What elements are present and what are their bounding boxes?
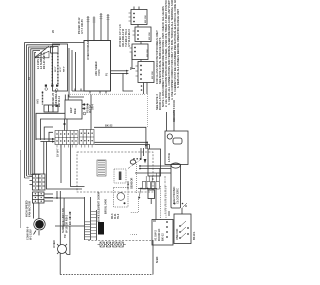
wire P2 drop [90,95,92,130]
svg-text:BAKE ELEMENT 2600W: BAKE ELEMENT 2600W [97,191,101,222]
cavity feed wires [141,148,144,160]
svg-text:UNLOCK: UNLOCK [175,228,179,240]
latch motor circle [167,134,172,139]
svg-text:ELECTRONIC: ELECTRONIC [172,186,176,204]
heater ladder resistor bank [85,197,97,240]
svg-text:BR W-14: BR W-14 [57,95,61,107]
ground loop ellipse [130,160,136,164]
blower block dots [141,85,143,91]
latch switch small box [173,138,182,144]
clock bottom contact cluster [174,203,187,207]
grid feed stubs [146,169,159,182]
relay contact strip R5 [44,105,58,112]
lockout relay box K1 (HLP) [65,100,82,119]
relay contact grid row [142,182,159,190]
broil element hatched [97,160,106,176]
oven sensor inner dashed box [114,169,126,183]
wires cavity to clock [135,166,171,173]
svg-text:SENSOR: SENSOR [130,178,134,189]
P1 cell dots [56,133,76,141]
sensor element bar [119,172,122,181]
svg-text:W-10 OR RD-2: W-10 OR RD-2 [65,214,69,233]
corner junction dots [145,142,148,147]
svg-text:BK: BK [131,66,133,70]
oven lamp L1 [57,244,67,254]
wire P2 to relay section [94,127,150,149]
HLP drops into P1 [65,119,68,131]
svg-text:LF 6": LF 6" [60,66,62,72]
TB2 pins right [44,194,53,201]
svg-text:HLP: HLP [69,107,73,113]
down arrow junction [144,159,147,164]
svg-text:TR: TR [63,234,67,238]
junction dot under module [87,104,89,106]
M1 lead stubs [34,231,40,236]
P2 cell dots [81,133,93,142]
svg-text:RR 6": RR 6" [64,66,66,72]
lower fan dashed box [114,188,129,208]
chain bottom terminal circles [45,88,58,92]
door latch box [165,131,188,165]
bus entries to TB1 [25,174,41,178]
module right side wires to latch [72,71,133,91]
svg-text:A#1: A#1 [36,99,40,104]
stack drop wire [132,52,135,69]
svg-text:CLOCK ERC: CLOCK ERC [176,188,180,204]
clock wire dots [139,165,141,169]
svg-text:GY-7 OR-55: GY-7 OR-55 [80,19,84,34]
lock box stub [150,199,152,205]
svg-text:INF SW: INF SW [152,70,154,79]
svg-text:LATCH: LATCH [167,153,171,162]
surface unit switch block SW1 [53,44,68,91]
dashed neutral line [88,240,153,242]
plug connector P2 grid [80,130,95,145]
wire bus left vertical runs [25,43,85,178]
wire row dots [138,188,149,200]
svg-text:DLB: DLB [73,108,77,114]
svg-text:OVEN MODULE: OVEN MODULE [86,40,90,60]
svg-text:20: 20 [51,30,55,33]
resistor chain right column [57,53,59,86]
fuse box top [51,47,59,54]
svg-text:DOOR LATCH: DOOR LATCH [158,92,162,110]
terminal strip TB2 [33,192,45,203]
latch feed wires [167,110,175,131]
wire to door block [153,220,156,222]
junction dots under chains [45,85,58,87]
TB1 pins left [30,177,33,185]
K1 terminal circle [83,112,86,115]
mid horizontal wire upper [45,191,85,245]
svg-text:W-31: W-31 [115,213,117,219]
R5 dot [56,105,58,107]
svg-text:INF SW: INF SW [147,48,149,57]
svg-text:BK W-1: BK W-1 [193,231,196,240]
K1 pins [65,95,84,109]
svg-text:OVEN: OVEN [52,240,56,248]
TB cell dots [35,175,43,202]
wire mid-left taps to connector row [36,113,65,141]
surface switch bank S1 [131,10,154,83]
svg-text:DOOR LK: DOOR LK [157,229,161,241]
svg-text:BROIL 3400: BROIL 3400 [104,198,108,214]
bottom neutral rail [60,226,153,275]
svg-text:BK GY-44: BK GY-44 [68,212,72,225]
wire TB2 to M1 [34,203,39,219]
svg-text:BK-12: BK-12 [161,233,165,241]
svg-text:INF SW: INF SW [149,31,151,40]
convection fan motor M1 [34,219,45,230]
lock motor wire row [138,188,157,190]
connector feed wires [36,139,52,142]
door switch dots [166,221,189,239]
svg-text:W-3 120V: W-3 120V [30,229,33,240]
dotted separator line [70,93,146,95]
svg-text:20: 20 [27,77,31,80]
svg-text:BK-22: BK-22 [105,124,113,128]
svg-text:N BK: N BK [155,256,159,263]
latch relay box K2 [148,149,161,176]
svg-text:INF SW: INF SW [145,14,147,23]
svg-text:V MC: V MC [97,69,101,76]
svg-text:SEE NOTE 5 DOOR: SEE NOTE 5 DOOR [173,100,176,122]
lock switch box [148,190,155,199]
electronic clock strip [171,164,181,208]
resistor chain left column [51,53,53,86]
K1 contact dots [63,103,85,125]
module bottom pin stubs [75,89,106,94]
fuse row below dashed line [98,242,126,247]
svg-text:FAN MOTOR: FAN MOTOR [28,201,32,217]
clock strip oval top [171,163,180,168]
cavity top dots [133,158,141,160]
door switch block lower [152,214,191,245]
oven cavity dashed box [77,152,153,192]
svg-text:GY W-7: GY W-7 [57,148,60,157]
wire drops from switch area [69,48,84,97]
terminal strip TB1 [33,174,46,190]
chassis dash-dot line [128,159,165,215]
svg-text:RF 8": RF 8" [55,66,57,72]
wire plug arrows [126,70,129,75]
svg-text:GY W-19 BU-5: GY W-19 BU-5 [127,29,131,47]
svg-text:SURFACE UNIT SW: SURFACE UNIT SW [61,208,65,233]
svg-text:A1 SW-2: A1 SW-2 [154,230,158,241]
svg-text:6. REPLACE ALL PANELS BEFORE O: 6. REPLACE ALL PANELS BEFORE OPERATING R… [176,9,180,88]
dotted drop at right [147,94,149,127]
plug connector P1 grid [55,131,78,145]
svg-text:RD-6: RD-6 [112,213,114,219]
oven control module U1 [84,41,111,92]
switch bank interconnect wires [129,7,148,95]
arrow wire [139,189,141,197]
pilot resistor [42,94,44,105]
module top pins P5 [88,13,108,41]
svg-text:OR-4: OR-4 [92,104,95,110]
svg-text:TN-9: TN-9 [118,213,120,219]
wire dots mid [69,212,71,219]
wire diagonal feed to P1 [35,46,49,58]
power entry wedge [35,51,49,58]
wire row to TB1 [44,142,85,190]
harness return wire [19,150,21,228]
pin tick marks [87,15,110,23]
feed arrowheads [52,138,55,143]
drops to door switch D [156,186,169,220]
wire blower to door switch [181,208,183,214]
grid pin stubs below [57,145,92,148]
double line break element [98,222,104,235]
svg-text:OVEN: OVEN [126,181,130,189]
switch contact dots [133,13,142,80]
dashed chassis drop [131,164,139,235]
svg-text:RF LR UNITS: RF LR UNITS [42,52,46,69]
door switch arrows [181,221,187,238]
